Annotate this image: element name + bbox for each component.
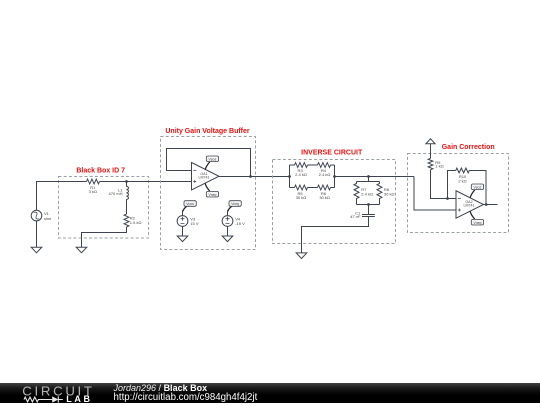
svg-text:30 kΩ: 30 kΩ xyxy=(296,195,307,200)
op-amp OA2 LM741 xyxy=(456,191,484,219)
svg-text:sine: sine xyxy=(44,216,52,221)
svg-text:Vneg: Vneg xyxy=(473,221,481,225)
svg-text:Vneg: Vneg xyxy=(231,202,239,206)
label R7 2.4 kOhm xyxy=(361,187,373,197)
dashed box: INVERSE CIRCUIT xyxy=(273,160,396,244)
ground (V3) xyxy=(177,236,188,242)
svg-text:LM741: LM741 xyxy=(464,204,475,208)
svg-text:LM741: LM741 xyxy=(199,175,210,179)
svg-text:INVERSE CIRCUIT: INVERSE CIRCUIT xyxy=(301,150,363,157)
footer bar xyxy=(0,383,540,403)
label L1 470 mH xyxy=(108,187,123,196)
label R1 3 kOhm xyxy=(89,185,97,194)
svg-text:15 V: 15 V xyxy=(190,221,199,226)
svg-text:LAB: LAB xyxy=(66,394,92,403)
node label Vpos (V3) xyxy=(183,201,197,212)
label R6 30 kOhm xyxy=(319,191,330,200)
op-amp OA1 LM741 xyxy=(192,163,220,191)
voltage source V3 xyxy=(177,216,188,227)
junction dot bottom rail xyxy=(367,203,370,206)
resistor R10 xyxy=(456,168,470,173)
dashed box: Black Box ID 7 xyxy=(59,177,149,239)
resistor R5 xyxy=(295,185,308,190)
wire V1 top to R1 xyxy=(37,182,87,211)
svg-text:Vpos: Vpos xyxy=(209,157,217,161)
svg-text:-15 V: -15 V xyxy=(235,221,245,226)
resistor R7 xyxy=(354,182,359,205)
voltage source V4 xyxy=(222,216,233,227)
svg-text:30 kΩ: 30 kΩ xyxy=(384,191,395,196)
ground (INVERSE) xyxy=(296,253,307,259)
label V1 sine xyxy=(44,211,52,221)
resistor R2 xyxy=(124,214,129,227)
wire V1 to ground xyxy=(36,221,38,247)
voltage source V1 xyxy=(31,210,42,221)
wire supply to R9 xyxy=(430,144,432,159)
junction dot OA1 output xyxy=(249,175,252,178)
label R10 2 kOhm xyxy=(458,174,467,184)
wire OA2 output xyxy=(484,204,498,206)
ground (V4) xyxy=(222,236,233,242)
capacitor C1 xyxy=(362,215,375,217)
wire top rail right xyxy=(331,164,335,166)
node label Vneg (OA2) xyxy=(470,212,483,226)
wire bottom rail to C1 xyxy=(357,205,380,215)
svg-text:Vpos: Vpos xyxy=(474,185,482,189)
svg-text:Black Box ID 7: Black Box ID 7 xyxy=(76,168,125,175)
svg-text:2.4 kΩ: 2.4 kΩ xyxy=(295,172,307,177)
wire feedback loop OA2 xyxy=(448,171,487,205)
svg-text:2 kΩ: 2 kΩ xyxy=(458,179,466,184)
label R8 30 kOhm xyxy=(384,187,395,197)
footer titles xyxy=(114,383,208,393)
svg-text:Unity Gain Voltage Buffer: Unity Gain Voltage Buffer xyxy=(165,128,250,135)
wire V4 to ground xyxy=(227,226,229,236)
wire feedback loop OA1 xyxy=(167,149,251,177)
resistor R3 xyxy=(295,163,308,168)
wire node B down to parallel rails xyxy=(357,177,380,182)
label V3 15 V xyxy=(190,217,199,226)
dashed box: Unity Gain Voltage Buffer xyxy=(161,137,256,250)
wire right branch vertical xyxy=(334,165,336,188)
svg-text:47 nF: 47 nF xyxy=(350,214,361,219)
node label Vpos (OA1) xyxy=(205,156,218,170)
label R4 2.4 kOhm xyxy=(319,168,331,177)
svg-text:Vpos: Vpos xyxy=(186,202,194,206)
wire OA1 output xyxy=(219,176,290,178)
wire node A to buffer input xyxy=(127,181,192,183)
junction dot node B xyxy=(367,175,370,178)
wire right node to node B xyxy=(335,176,369,178)
label R5 30 kOhm xyxy=(296,191,307,200)
svg-text:Vneg: Vneg xyxy=(208,193,216,197)
svg-text:2.4 kΩ: 2.4 kΩ xyxy=(319,172,331,177)
supply arrow xyxy=(426,139,435,144)
label V4 -15 V xyxy=(235,217,245,226)
wire node B to gain correction xyxy=(369,176,415,178)
ground (V1) xyxy=(31,247,42,253)
wire R1 to node A xyxy=(100,181,127,183)
svg-text:1 kΩ: 1 kΩ xyxy=(435,164,443,169)
node label Vneg (OA1) xyxy=(205,184,218,198)
wire R9 to minus input xyxy=(431,170,457,199)
wire L1 to R2 xyxy=(126,200,128,214)
node label Vneg (V4) xyxy=(228,201,242,212)
resistor R9 xyxy=(428,158,433,169)
wire input jog to plus input xyxy=(414,177,456,211)
junction dot OA2 output xyxy=(485,203,488,206)
resistor R6 xyxy=(318,185,331,190)
resistor R4 xyxy=(318,163,331,168)
node label Vpos (OA2) xyxy=(470,184,483,198)
resistor R1 xyxy=(87,179,100,184)
CircuitLab logo xyxy=(0,383,110,403)
wire bottom rail right xyxy=(331,187,335,189)
inductor L1 xyxy=(127,182,129,200)
junction dot minus node xyxy=(446,197,449,200)
wire top rail mid xyxy=(308,164,318,166)
node A junction xyxy=(125,180,128,183)
wire top rail left xyxy=(290,164,295,166)
svg-text:1.5 kΩ: 1.5 kΩ xyxy=(130,220,142,225)
ground (black box) xyxy=(76,247,87,253)
wire left branch vertical xyxy=(289,165,291,188)
junction dot left node xyxy=(288,175,291,178)
wire bottom rail left xyxy=(290,187,295,189)
svg-text:3 kΩ: 3 kΩ xyxy=(89,189,97,194)
wire C1 to ground xyxy=(302,217,369,253)
wire bottom rail mid xyxy=(308,187,318,189)
wire V3 stub xyxy=(182,210,184,215)
label R3 2.4 kOhm xyxy=(295,168,307,177)
label R9 1 kOhm xyxy=(435,160,443,169)
label R2 1.5 kOhm xyxy=(130,216,142,225)
label C1 47 nF xyxy=(350,210,361,219)
resistor R8 xyxy=(377,182,382,205)
junction dot right node xyxy=(333,175,336,178)
dashed box: Gain Correction xyxy=(408,154,509,233)
wire R2 to ground xyxy=(82,227,127,247)
wire V3 to ground xyxy=(182,226,184,236)
svg-text:Gain Correction: Gain Correction xyxy=(442,144,495,151)
svg-text:470 mH: 470 mH xyxy=(108,191,122,196)
wire V4 stub xyxy=(227,210,229,215)
svg-text:2.4 kΩ: 2.4 kΩ xyxy=(361,191,373,196)
svg-text:30 kΩ: 30 kΩ xyxy=(319,195,330,200)
